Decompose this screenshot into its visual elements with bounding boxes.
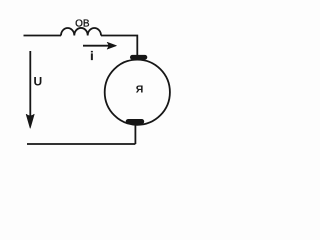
svg-text:i: i <box>90 51 93 63</box>
svg-text:ОВ: ОВ <box>75 18 90 29</box>
svg-text:U: U <box>34 75 43 89</box>
svg-text:Я: Я <box>136 83 144 95</box>
